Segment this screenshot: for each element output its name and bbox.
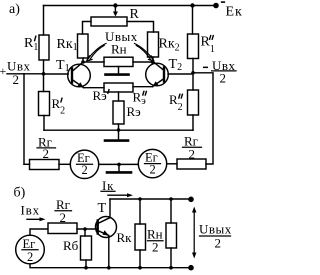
arrow Ivx <box>27 218 42 220</box>
node Rn2 bottom <box>169 266 173 270</box>
resistor R'1 <box>39 35 49 60</box>
svg-text:Rб: Rб <box>63 238 79 253</box>
wire Rk bottom <box>139 250 141 268</box>
resistor Rk1 <box>78 34 89 58</box>
resistor Re <box>113 101 124 124</box>
wire Rn2 top <box>170 199 172 223</box>
svg-text:R: R <box>130 7 140 22</box>
svg-text:Eк: Eк <box>226 5 243 20</box>
potentiometer R wiper node <box>113 3 117 7</box>
ground mid bottom <box>118 164 120 171</box>
wire input left (fraction bar) <box>7 73 44 75</box>
node Rb bottom <box>84 266 88 270</box>
transistor T1 <box>68 62 91 88</box>
node base/Rb <box>83 227 87 231</box>
node Rk top <box>138 197 142 201</box>
label -Uvx/2 <box>203 58 236 86</box>
svg-text:R1: R1 <box>24 36 38 53</box>
node rail to R''1 <box>190 3 194 7</box>
node base T1 <box>42 72 46 76</box>
svg-text:2: 2 <box>189 147 196 162</box>
resistor Rk <box>135 224 146 250</box>
svg-text:Rн: Rн <box>111 42 127 57</box>
wire top rail b <box>110 198 191 200</box>
node Re bottom <box>117 128 121 132</box>
svg-text:2: 2 <box>27 250 33 264</box>
wire Rb bottom <box>85 260 87 268</box>
wire R''1 bottom <box>192 59 194 73</box>
wire top rail <box>44 5 217 7</box>
wire Rk1 to collector node <box>82 58 84 62</box>
wire Eg top to Rg <box>30 229 48 235</box>
svg-text:2: 2 <box>82 163 88 177</box>
resistor R''1 <box>188 34 199 59</box>
wire Re tap <box>118 92 120 101</box>
terminal out bottom <box>188 265 194 271</box>
wire R''2 bottom <box>192 115 194 130</box>
svg-text:Eг: Eг <box>23 237 36 251</box>
node mid ground <box>117 163 121 167</box>
wire emitter T1 to Re' <box>84 87 105 89</box>
svg-text:T: T <box>98 201 107 216</box>
wire R'2 top <box>43 74 45 92</box>
svg-text:R2: R2 <box>52 96 66 116</box>
wire left input down <box>23 74 25 165</box>
ground below Rn <box>118 67 120 74</box>
svg-text:2: 2 <box>220 71 227 86</box>
node Rk bottom <box>138 266 142 270</box>
transistor T2 <box>146 62 169 87</box>
wire R'1 top <box>43 6 45 36</box>
label +Uvx/2 <box>0 59 31 88</box>
wire base T2 <box>168 73 193 75</box>
resistor R'2 <box>39 92 50 116</box>
transistor T b <box>96 217 117 238</box>
svg-text:а): а) <box>9 2 20 17</box>
source Eg/2 right <box>138 149 166 177</box>
node collector T1 <box>81 60 85 64</box>
resistor Re' Re'' <box>104 83 133 92</box>
label -Ek <box>221 1 243 19</box>
svg-text:Rэ: Rэ <box>93 88 108 103</box>
svg-text:б): б) <box>14 186 26 201</box>
terminal out top <box>188 197 194 203</box>
svg-text:Rк2: Rк2 <box>159 37 180 54</box>
arrow Uvyh left <box>88 44 107 60</box>
wire base T1 <box>44 73 69 75</box>
wire Rg to Eg left <box>59 163 70 165</box>
wire R''2 top <box>192 73 194 90</box>
node Rn2 top <box>169 197 173 201</box>
svg-text:Uвых: Uвых <box>199 222 232 237</box>
wire R left to Rk1 <box>83 22 92 35</box>
wire Rb top <box>84 229 86 236</box>
resistor Rn <box>104 57 133 66</box>
wire bottom rail b <box>30 264 191 268</box>
wire collector T1 to Rn <box>83 61 104 63</box>
wire bottom a) <box>44 129 193 131</box>
wire Rn to collector T2 <box>133 61 153 63</box>
arrow Ik <box>108 194 130 196</box>
svg-text:Rк: Rк <box>117 230 133 245</box>
wire R'2 bottom <box>43 116 45 131</box>
wire right edge up to base T2 <box>193 73 213 164</box>
wire Rg to base <box>77 228 96 230</box>
svg-text:2: 2 <box>152 240 159 255</box>
node emitter bottom <box>107 266 111 270</box>
wire to Rg/2 left <box>24 163 30 165</box>
resistor R <box>91 17 127 26</box>
node collector T2 <box>151 60 155 64</box>
wire R'1 bottom <box>43 60 45 74</box>
svg-text:2: 2 <box>215 236 222 251</box>
arrow Uvyh right <box>135 44 154 60</box>
wire Re bottom <box>118 124 120 130</box>
wire rail to R''1 <box>192 6 194 35</box>
wire collector b <box>109 199 111 218</box>
svg-text:R2: R2 <box>169 92 183 113</box>
wire Rk top <box>139 199 141 224</box>
wire R right to Rk2 <box>127 22 154 33</box>
svg-text:Iвх: Iвх <box>21 203 40 218</box>
svg-text:2: 2 <box>150 163 156 177</box>
ground below Re <box>118 130 120 139</box>
svg-text:Rэ: Rэ <box>127 104 142 119</box>
wire Eg right to Rg right <box>167 163 177 165</box>
wire Rk2 to collector node <box>152 57 154 62</box>
potentiometer R wiper arrow <box>114 6 116 14</box>
resistor R''2 <box>188 90 199 115</box>
source Eg/2 left <box>70 150 98 178</box>
svg-text:+: + <box>0 64 7 78</box>
wire Rn2 bottom <box>170 248 172 268</box>
resistor Rn/2 <box>166 223 177 248</box>
svg-text:T1: T1 <box>56 58 70 74</box>
power terminal Ek <box>213 3 219 9</box>
label Uvyh/2 <box>199 222 232 251</box>
wire emitter b <box>108 236 110 268</box>
node base T2 <box>191 71 195 75</box>
resistor Rk2 <box>148 32 159 57</box>
svg-text:Rк1: Rк1 <box>57 37 78 53</box>
source Eg/2 b <box>16 235 45 264</box>
resistor Rg/2 b <box>48 223 77 234</box>
wire emitter T2 to Re'' <box>133 86 153 88</box>
svg-text:2: 2 <box>60 210 67 225</box>
svg-text:T2: T2 <box>169 57 183 73</box>
resistor Rg/2 right <box>177 159 206 169</box>
resistor Rg/2 left <box>30 160 60 170</box>
wire Eg left to ground node <box>99 163 139 165</box>
resistor Rb <box>81 236 92 260</box>
arrow Uvyh/2 double <box>193 210 195 256</box>
